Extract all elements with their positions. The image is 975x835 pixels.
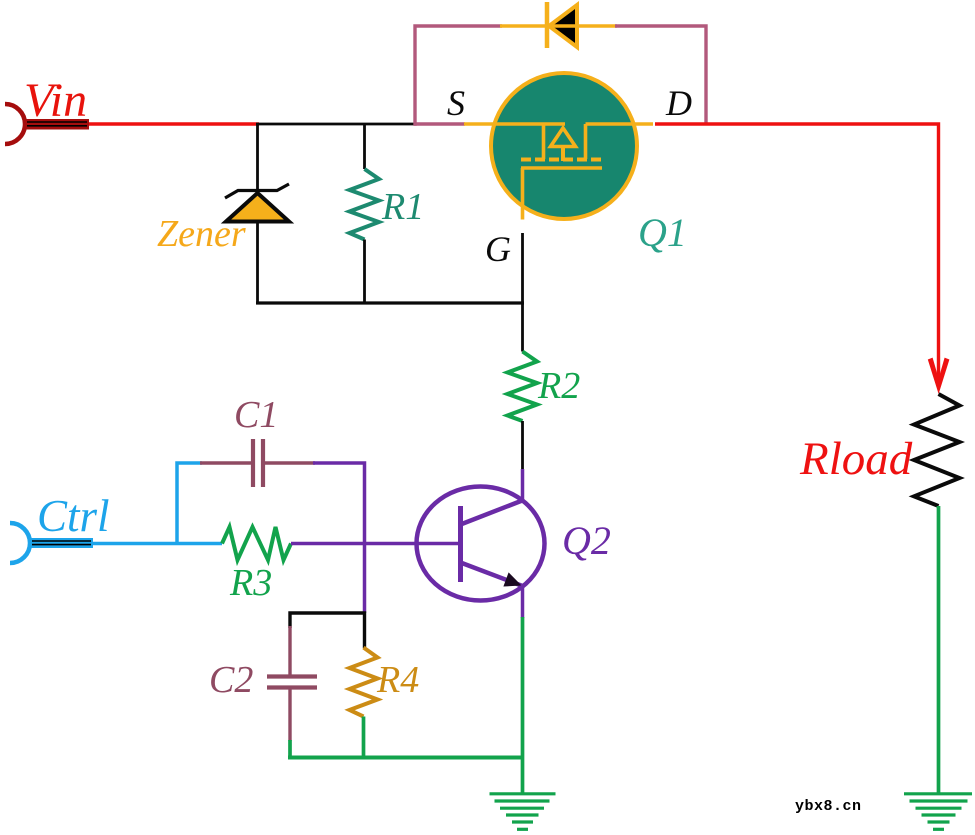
svg-text:R1: R1 bbox=[381, 186, 424, 228]
capacitor C2 top plate bbox=[267, 674, 317, 678]
resistor R2 zigzag bbox=[508, 352, 538, 422]
capacitor C2 top lead bbox=[288, 626, 291, 676]
wire green below R4 bbox=[362, 717, 366, 760]
wire pink left riser to body diode bbox=[415, 26, 502, 126]
svg-text:Rload: Rload bbox=[799, 433, 913, 485]
wire blue branch to C1 bbox=[177, 463, 202, 544]
wire green below Rload bbox=[937, 506, 941, 795]
wire red Vin to zener node bbox=[89, 122, 259, 125]
wire green bottom rail bbox=[288, 756, 524, 760]
svg-text:Q1: Q1 bbox=[638, 210, 687, 255]
wire black below R2 bbox=[521, 421, 524, 469]
connector J1 Vin port bbox=[5, 104, 89, 144]
mosfet Q1 gate lead bbox=[521, 168, 525, 220]
wire black gate column bbox=[521, 233, 524, 352]
mosfet Q1 substrate arrow triangle bbox=[551, 128, 576, 147]
ground GND right bbox=[904, 794, 972, 830]
svg-text:R2: R2 bbox=[537, 365, 580, 407]
wire pink short S segment bbox=[414, 122, 466, 125]
capacitor C1 right lead bbox=[265, 461, 315, 464]
svg-text:ybx8.cn: ybx8.cn bbox=[795, 798, 862, 815]
capacitor C1 left lead bbox=[200, 461, 251, 464]
capacitor C1 right plate bbox=[261, 439, 265, 487]
diode D1 black triangle bbox=[549, 5, 577, 47]
resistor R4 zigzag bbox=[350, 648, 378, 717]
wire black C2/R4 top tie bbox=[290, 613, 365, 648]
mosfet Q1 source contact drop bbox=[542, 124, 546, 159]
wire green emitter to ground bbox=[521, 617, 525, 795]
capacitor C2 bottom lead bbox=[288, 689, 291, 741]
wire black bottom rail of zener/R1 section bbox=[256, 301, 524, 304]
transistor Q2 base bar bbox=[458, 506, 463, 582]
mosfet Q1 drain contact drop bbox=[584, 124, 588, 159]
zener diode cathode bar with bends bbox=[225, 184, 289, 198]
mosfet Q1 substrate stem bbox=[561, 147, 565, 162]
diode D1 cathode bar bbox=[545, 2, 550, 48]
mosfet Q1 source lead and line bbox=[464, 122, 565, 126]
resistor R1 zigzag bbox=[350, 169, 380, 240]
mosfet Q1 body circle bbox=[491, 73, 637, 219]
wire purple C1 to junction corner bbox=[313, 463, 365, 613]
wire purple R3 to Q2 base bbox=[291, 542, 461, 546]
connector J2 Ctrl port bbox=[10, 523, 93, 563]
svg-text:R3: R3 bbox=[229, 562, 272, 604]
zener diode Zener triangle bbox=[226, 193, 289, 222]
transistor Q2 emitter arrowhead bbox=[503, 572, 521, 586]
wire green below C2 bbox=[288, 740, 292, 759]
resistor R3 zigzag bbox=[222, 527, 291, 560]
zener diode top lead bbox=[256, 124, 259, 192]
wire red drain to Rload bbox=[655, 124, 939, 379]
resistor R1 top lead bbox=[363, 124, 366, 169]
wire black zener node to pink junction bbox=[256, 123, 415, 126]
svg-text:S: S bbox=[447, 83, 465, 123]
diode D1 orange lead across bbox=[500, 24, 617, 28]
wire pink right riser from body diode bbox=[615, 26, 706, 124]
svg-text:C1: C1 bbox=[234, 394, 278, 436]
resistor Rload zigzag bbox=[914, 394, 960, 506]
svg-text:Q2: Q2 bbox=[562, 518, 611, 563]
transistor Q2 body circle bbox=[417, 487, 545, 601]
ground GND left bbox=[490, 794, 556, 830]
transistor Q2 collector diagonal bbox=[461, 500, 524, 525]
mosfet Q1 channel dashed line bbox=[521, 158, 602, 162]
svg-text:D: D bbox=[665, 83, 692, 123]
arrow red current arrowhead bbox=[928, 358, 950, 394]
wire blue Ctrl to R3 bbox=[93, 542, 222, 546]
mosfet Q1 drain lead and line bbox=[586, 122, 654, 126]
svg-text:Ctrl: Ctrl bbox=[37, 491, 110, 541]
svg-text:Vin: Vin bbox=[24, 74, 87, 127]
svg-text:R4: R4 bbox=[376, 659, 419, 701]
capacitor C1 left plate bbox=[251, 439, 255, 487]
svg-text:Zener: Zener bbox=[157, 213, 246, 255]
wire purple collector riser bbox=[521, 469, 525, 502]
resistor R1 bottom lead bbox=[363, 240, 366, 305]
transistor Q2 emitter diagonal bbox=[461, 563, 523, 587]
wire purple emitter drop bbox=[521, 584, 525, 618]
svg-text:G: G bbox=[485, 229, 511, 269]
mosfet Q1 gate bar bbox=[521, 166, 602, 170]
zener diode bottom lead bbox=[256, 221, 259, 304]
svg-text:C2: C2 bbox=[209, 659, 253, 701]
capacitor C2 bottom plate bbox=[267, 685, 317, 689]
